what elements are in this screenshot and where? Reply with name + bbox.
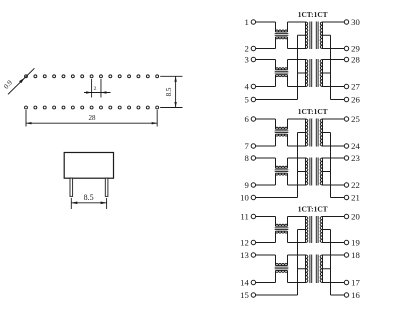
choke core lines group 2 channel 2 [275,170,289,172]
transformer group 1 channel 1 primary winding [306,22,308,49]
wire secondary top to pin [323,254,345,256]
dimension extension lines pin pitch [92,79,101,98]
svg-text:7: 7 [244,141,249,151]
pin 26 terminal [344,97,348,101]
overall length arrow left [26,122,32,124]
wire secondary bottom to pin [323,184,345,186]
svg-text:21: 21 [351,192,360,202]
secondary center tap stub channel 1 [323,34,331,36]
svg-text:20: 20 [351,211,360,221]
svg-text:23: 23 [351,153,360,163]
svg-text:25: 25 [351,114,360,124]
pin 7 terminal [251,144,255,148]
common-mode choke group 1 channel 1 winding A [276,30,288,32]
wire secondary top to pin [323,216,345,218]
dimension line pin pitch [84,92,111,94]
primary center tap stub channel 2 [298,268,306,270]
svg-text:1: 1 [244,17,248,27]
common-mode choke group 1 channel 1 winding B [276,37,288,39]
transformer group 1 channel 2 secondary winding [320,60,322,87]
wire pin 1 to choke [256,22,276,32]
pin 14 terminal [251,280,255,284]
leg spacing arrow right [101,202,107,205]
svg-text:19: 19 [351,237,360,247]
svg-text:8: 8 [244,153,249,163]
wire pin 3 to choke [256,60,276,70]
secondary center tap stub channel 2 [323,268,331,270]
pin 10 terminal [251,195,255,199]
svg-text:28: 28 [89,114,97,122]
secondary center tap stub channel 2 [323,72,331,74]
pin hole row top (15 holes) [25,75,159,78]
common-mode choke group 3 channel 2 winding A [276,264,288,266]
wire pin 9 to choke [256,173,276,185]
secondary center tap stub channel 1 [323,229,331,231]
transformer group 2 channel 1 secondary winding [320,119,322,146]
wire secondary bottom to pin [323,282,345,284]
wire pin 14 to choke [256,270,276,282]
wire choke to primary bottom [288,134,306,146]
row spacing arrow top [174,76,176,82]
svg-text:27: 27 [351,81,360,91]
leader line 0.9 hole diameter [8,68,34,94]
common-mode choke group 2 channel 1 winding A [276,127,288,129]
svg-text:8.5: 8.5 [165,87,173,96]
common-mode choke group 1 channel 2 winding A [276,68,288,70]
pin 22 terminal [344,183,348,187]
transformer group 3 channel 1 secondary winding [320,217,322,243]
transformer group 2 channel 1 primary winding [306,119,308,146]
common-mode choke group 3 channel 1 winding B [276,231,288,233]
wire choke to primary bottom [288,75,306,87]
choke core lines group 2 channel 1 [275,131,289,133]
svg-text:4: 4 [244,81,249,91]
common-mode choke group 2 channel 2 winding A [276,166,288,168]
secondary center tap bus to pin 16 [331,230,345,296]
pin 2 terminal [251,46,255,50]
pin 18 terminal [344,253,348,257]
transformer group 3 channel 1 core [310,216,318,243]
primary center tap stub channel 1 [298,132,306,134]
pin 3 terminal [251,57,255,61]
transformer group 1 channel 1 secondary winding [320,22,322,49]
primary center tap stub channel 1 [298,34,306,36]
svg-text:24: 24 [351,141,360,151]
wire choke to primary top [288,255,306,265]
common-mode choke group 3 channel 2 winding B [276,270,288,272]
svg-text:15: 15 [240,290,249,300]
wire pin 11 to choke [256,217,276,227]
svg-text:12: 12 [240,237,249,247]
svg-text:22: 22 [351,180,360,190]
wire choke to primary top [288,158,306,168]
pin 27 terminal [344,84,348,88]
row spacing arrow bottom [174,102,176,108]
leader arrowhead [19,78,25,84]
dimension line 8.5 row spacing [175,76,177,107]
svg-text:28: 28 [351,54,360,64]
pin 20 terminal [344,214,348,218]
svg-text:10: 10 [240,192,249,202]
package leg left [70,178,73,196]
wire choke to primary top [288,22,306,32]
pin 8 terminal [251,156,255,160]
svg-text:17: 17 [351,277,360,287]
wire pin 8 to choke [256,158,276,168]
dimension extension lines leg spacing [71,198,106,209]
package body outline (side view) [64,153,113,179]
pin 1 terminal [251,20,255,24]
dimension extension lines row spacing [160,76,182,107]
dimension extension lines overall length [26,110,157,127]
pin 12 terminal [251,240,255,244]
transformer group 1 channel 2 primary winding [306,60,308,87]
pin 16 terminal [344,293,348,297]
wire secondary bottom to pin [323,48,345,50]
svg-text:1CT:1CT: 1CT:1CT [298,107,328,116]
choke core lines group 1 channel 1 [275,34,289,36]
pin 4 terminal [251,84,255,88]
common-mode choke group 1 channel 2 winding B [276,75,288,77]
secondary center tap bus to pin 26 [331,35,345,99]
wire pin 6 to choke [256,119,276,129]
pin 25 terminal [344,117,348,121]
wire pin 13 to choke [256,255,276,265]
pin 15 terminal [251,293,255,297]
svg-text:8.5: 8.5 [84,193,94,202]
primary center tap stub channel 2 [298,171,306,173]
primary center tap bus to pin 10 [256,133,298,198]
pin 28 terminal [344,57,348,61]
dimension line 8.5 leg spacing [71,202,106,204]
pin 13 terminal [251,253,255,257]
pin hole row bottom (15 holes) [25,106,159,109]
wire pin 4 to choke [256,75,276,87]
primary center tap bus to pin 15 [256,230,298,296]
svg-text:16: 16 [351,290,360,300]
leg spacing arrow left [71,202,77,205]
svg-text:1CT:1CT: 1CT:1CT [298,205,328,214]
pin 17 terminal [344,280,348,284]
common-mode choke group 2 channel 2 winding B [276,173,288,175]
svg-text:2: 2 [94,86,97,92]
choke core lines group 1 channel 2 [275,71,289,73]
pin 11 terminal [251,214,255,218]
svg-text:13: 13 [240,250,249,260]
wire secondary bottom to pin [323,242,345,244]
svg-text:18: 18 [351,250,360,260]
wire choke to primary bottom [288,37,306,49]
svg-text:26: 26 [351,94,360,104]
svg-text:11: 11 [240,211,248,221]
svg-text:3: 3 [244,54,248,64]
pin 19 terminal [344,240,348,244]
secondary center tap bus to pin 21 [331,133,345,198]
secondary center tap stub channel 2 [323,171,331,173]
secondary center tap stub channel 1 [323,132,331,134]
wire choke to primary top [288,60,306,70]
choke core lines group 3 channel 2 [275,267,289,269]
transformer group 2 channel 2 core [310,158,318,186]
transformer group 2 channel 1 core [310,119,318,147]
transformer group 2 channel 2 secondary winding [320,158,322,185]
transformer group 2 channel 2 primary winding [306,158,308,185]
wire secondary top to pin [323,157,345,159]
pin 21 terminal [344,195,348,199]
svg-text:1CT:1CT: 1CT:1CT [298,10,328,19]
wire pin 12 to choke [256,231,276,242]
transformer group 3 channel 2 secondary winding [320,255,322,283]
transformer group 3 channel 1 primary winding [306,217,308,243]
pin 29 terminal [344,46,348,50]
pin 5 terminal [251,97,255,101]
common-mode choke group 2 channel 1 winding B [276,134,288,136]
transformer group 1 channel 1 core [310,22,318,50]
wire secondary bottom to pin [323,145,345,147]
pin 9 terminal [251,183,255,187]
package leg right [105,178,108,196]
common-mode choke group 3 channel 1 winding A [276,224,288,226]
svg-text:5: 5 [244,94,248,104]
transformer group 3 channel 2 core [310,255,318,284]
transformer group 1 channel 2 core [310,59,318,87]
transformer group 3 channel 2 primary winding [306,255,308,283]
pitch arrow left [86,91,92,93]
pin 23 terminal [344,156,348,160]
wire choke to primary bottom [288,173,306,185]
primary center tap stub channel 1 [298,229,306,231]
overall length arrow right [152,122,158,124]
dimension line 28 overall length [26,122,157,124]
primary center tap stub channel 2 [298,72,306,74]
pin 24 terminal [344,144,348,148]
primary center tap bus to pin 5 [256,35,298,99]
svg-text:30: 30 [351,17,360,27]
pin 30 terminal [344,20,348,24]
wire pin 7 to choke [256,134,276,146]
wire secondary top to pin [323,21,345,23]
wire choke to primary top [288,217,306,227]
wire secondary top to pin [323,118,345,120]
wire choke to primary bottom [288,231,306,242]
wire pin 2 to choke [256,37,276,49]
svg-text:29: 29 [351,43,360,53]
svg-text:9: 9 [244,180,248,190]
pin 6 terminal [251,117,255,121]
pitch arrow right [101,91,107,93]
wire secondary bottom to pin [323,86,345,88]
wire choke to primary bottom [288,270,306,282]
choke core lines group 3 channel 1 [275,228,289,230]
svg-text:14: 14 [240,277,249,287]
svg-text:2: 2 [244,43,248,53]
svg-text:6: 6 [244,114,249,124]
wire secondary top to pin [323,59,345,61]
wire choke to primary top [288,119,306,129]
